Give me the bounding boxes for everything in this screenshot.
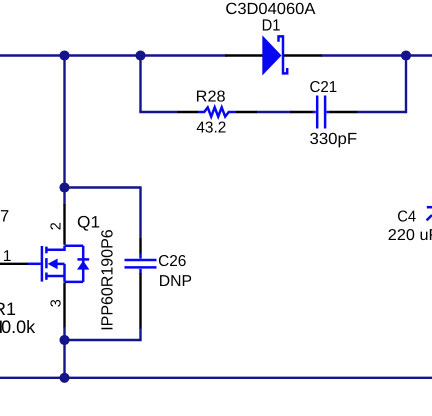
node: junction dot top rail at x=406 <box>401 50 411 60</box>
svg-text:Q1: Q1 <box>77 213 100 232</box>
transistor Q1 body diode top link <box>65 244 84 247</box>
capacitor C26 stub top <box>139 253 142 258</box>
node: junction dot source node <box>59 335 69 345</box>
wire: right riser up to top rail <box>405 56 407 114</box>
transistor Q1 source pin 3 (black) <box>63 283 65 328</box>
svg-text:R1: R1 <box>0 299 16 319</box>
wire: R28 branch horizontal left <box>139 111 178 113</box>
diode D1 schottky cathode bar <box>282 35 285 74</box>
wire: C21 to right riser <box>357 111 406 113</box>
svg-text:C3D04060A: C3D04060A <box>225 0 315 18</box>
transistor Q1 body diode cathode bar <box>77 258 89 261</box>
capacitor C21 plate right <box>324 96 327 129</box>
transistor Q1 drain pin 2 (black) <box>63 204 65 245</box>
wire: main top rail left segment <box>0 54 227 56</box>
svg-text:DNP: DNP <box>159 273 192 290</box>
resistor R28 pin left (black) <box>177 111 198 113</box>
svg-text:C21: C21 <box>310 79 338 96</box>
diode D1 pin cathode (black) <box>284 54 322 56</box>
node: junction dot drain node <box>59 182 69 192</box>
wire: R28 branch vertical left <box>139 56 141 113</box>
label partial digit 1 stem of 10.0k <box>0 321 2 333</box>
capacitor C21 pin right (black) <box>330 111 358 113</box>
svg-text:R28: R28 <box>196 89 226 106</box>
diode D1 pin anode (black) <box>225 54 262 56</box>
transistor Q1 substrate link <box>57 264 65 282</box>
svg-text:1: 1 <box>3 248 12 265</box>
wire: horizontal source node to C26 bottom <box>65 339 141 341</box>
diode D1 cathode top hook <box>279 36 284 41</box>
transistor Q1 channel segment bottom <box>45 273 48 280</box>
svg-text:43.2: 43.2 <box>196 120 226 137</box>
capacitor C4 plate fragment diagonal <box>427 215 432 220</box>
resistor R28 pin right (black) <box>236 111 258 113</box>
svg-text:D1: D1 <box>262 17 281 35</box>
capacitor C21 plate left <box>316 96 319 129</box>
capacitor C21 stub left <box>313 111 316 114</box>
node: junction dot top rail at x=140.5 <box>135 50 145 60</box>
wire: drain stub navy <box>63 188 65 206</box>
svg-text:C4: C4 <box>397 208 416 225</box>
capacitor C21 pin left (black) <box>290 111 313 113</box>
svg-text:330pF: 330pF <box>310 130 358 148</box>
capacitor C26 pin bottom (black) <box>139 273 141 329</box>
svg-text:220 uF: 220 uF <box>388 227 432 244</box>
wire: bottom rail <box>0 377 432 379</box>
transistor Q1 channel segment top <box>45 247 48 254</box>
svg-text:3: 3 <box>48 299 64 307</box>
capacitor C21 stub right <box>327 111 331 114</box>
transistor Q1 gate stub <box>28 263 41 266</box>
svg-text:10.0k: 10.0k <box>0 317 36 337</box>
wire: vertical from top rail down to drain node <box>63 56 65 188</box>
resistor R28 zigzag body <box>198 107 236 116</box>
transistor Q1 body diode bottom link <box>65 281 84 284</box>
diode D1 cathode bottom hook <box>283 68 287 73</box>
wire: vertical C26 branch upper <box>139 186 141 237</box>
capacitor C4 plate fragment top <box>427 206 432 209</box>
capacitor C26 pin top (black) <box>139 237 141 254</box>
transistor Q1 drain stub <box>46 246 64 251</box>
svg-text:C26: C26 <box>158 253 187 270</box>
transistor Q1 body diode triangle <box>77 261 89 270</box>
wire: source node down to bottom rail <box>63 340 65 378</box>
node: junction dot bottom rail <box>59 373 69 383</box>
svg-text:2: 2 <box>49 222 65 230</box>
wire: source to bottom junction <box>63 327 65 340</box>
transistor Q1 gate bar <box>41 246 44 282</box>
svg-text:IPP60R190P6: IPP60R190P6 <box>98 229 116 331</box>
transistor Q1 body diode vertical <box>82 246 85 282</box>
wire: C26 bottom riser <box>139 328 141 341</box>
transistor Q1 channel segment middle <box>45 258 48 268</box>
svg-text:7: 7 <box>0 207 9 226</box>
diode D1 triangle <box>262 35 281 75</box>
capacitor C26 stub bottom <box>139 269 142 274</box>
wire: horizontal drain node to C26 branch <box>65 186 141 188</box>
transistor Q1 source stub <box>46 275 64 278</box>
node: junction dot top rail at x=64.5 <box>59 50 69 60</box>
transistor Q1 gate pin 1 (black) <box>0 263 29 265</box>
capacitor C26 plate top <box>125 259 157 262</box>
wire: main top rail right segment <box>321 54 432 56</box>
wire: between R28 and C21 <box>257 111 291 113</box>
transistor Q1 substrate arrow <box>48 259 58 270</box>
capacitor C26 plate bottom <box>125 266 157 269</box>
